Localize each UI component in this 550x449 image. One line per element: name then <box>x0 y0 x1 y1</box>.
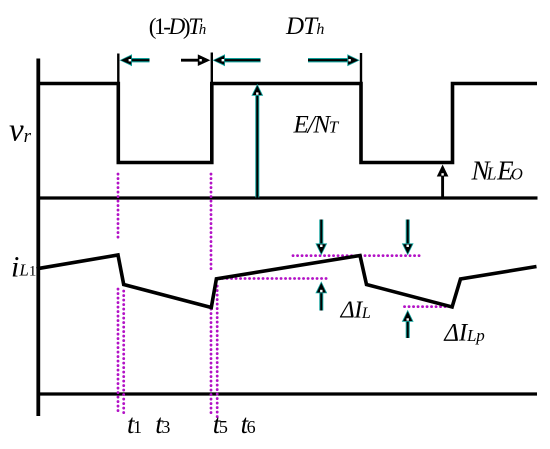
dotted vertical line at t3 <box>122 291 125 417</box>
node vr square-wave trace <box>37 84 538 163</box>
dotted vertical line at t5 (lower segment) <box>210 309 213 414</box>
teal up arrow below H1 (dI_L lower bound) <box>315 281 327 310</box>
wire: bottom panel baseline <box>37 392 538 395</box>
dotted horizontal line H1 (level after t5 rise) <box>218 277 328 280</box>
dotted vertical line at t1 (upper segment) <box>117 174 120 240</box>
dotted vertical line at t6 <box>216 286 219 417</box>
dotted horizontal line H3 (valley level) <box>405 305 455 308</box>
tick above second falling edge <box>360 53 362 85</box>
svg-text:(1-D)Th: (1-D)Th <box>149 14 206 39</box>
teal up arrow below H3 (dI_Lp lower bound) <box>402 310 414 338</box>
node iL1 inductor-current trace <box>37 255 537 308</box>
measurement arrow NLEo (black, up, from baseline to low level) <box>437 165 449 198</box>
tick above first rising edge <box>211 53 213 86</box>
vertical axis <box>36 59 40 417</box>
tick above first falling edge <box>117 54 119 86</box>
dimension arrow (teal/black) pointing left at t5 tick (DTh left end) <box>213 54 261 66</box>
dotted vertical line at t1 (lower segment) <box>117 289 120 414</box>
dimension arrow (teal/black) pointing right at second falling edge (DTh right end) <box>308 54 360 66</box>
teal down arrow at dI_Lp (right, pointing to peak dotted line) <box>402 220 414 256</box>
dotted horizontal line H2 (peak level) <box>293 254 421 257</box>
dotted vertical line at t5 (upper segment) <box>210 174 213 271</box>
teal down arrow at dI_L (left, pointing to peak dotted line) <box>315 220 327 256</box>
dimension arrow (black) pointing right at t5 tick <box>181 54 210 66</box>
wire: top panel baseline <box>37 196 538 199</box>
measurement arrow E/NT (teal, up, from baseline to top level) <box>251 84 263 198</box>
dimension arrow (teal/black) pointing left at t1 tick <box>120 54 150 66</box>
